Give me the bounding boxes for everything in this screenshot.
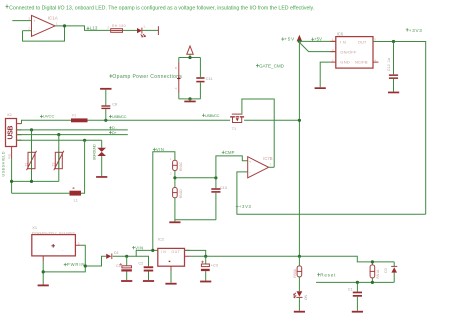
capacitor C2	[136, 256, 153, 280]
wire UVCC	[22, 120, 72, 123]
wire divider bottom to ground	[175, 198, 216, 220]
wire X1 pin loop	[43, 245, 85, 272]
node divider junction	[173, 176, 176, 179]
node Z1 junction	[30, 128, 33, 131]
svg-text:Reset: Reset	[320, 273, 336, 278]
ground C12	[388, 92, 399, 94]
resistor RN1D	[172, 188, 183, 199]
wire D1 to VIN step	[113, 250, 158, 256]
resistor RH	[107, 24, 125, 32]
svg-text:-: -	[40, 250, 41, 253]
svg-text:GND: GND	[340, 60, 350, 65]
net UVCC label	[40, 114, 54, 119]
wire divider middle	[175, 171, 216, 188]
wire D+ line	[17, 134, 128, 136]
opamp power connections text	[109, 74, 182, 80]
wire Reset line	[316, 281, 394, 283]
node OUT junction	[392, 40, 395, 43]
capacitor C8 with ground above	[100, 88, 117, 120]
ground IC6	[315, 87, 326, 89]
svg-text:UVCC: UVCC	[43, 114, 54, 119]
svg-text:ON/OFF: ON/OFF	[340, 50, 357, 55]
node Z2 junction	[57, 133, 60, 136]
wire GND line	[17, 139, 102, 141]
power jack X1	[32, 226, 81, 261]
wire 5V output line	[190, 256, 394, 262]
wire IC1A output	[55, 26, 111, 31]
node L13 label	[87, 26, 98, 31]
ground ON LED	[294, 311, 305, 313]
node shield junctions	[10, 180, 13, 183]
wire IC2 GND	[170, 271, 172, 283]
svg-text:+5V: +5V	[314, 37, 322, 42]
ground C1	[121, 280, 132, 282]
node X1 junction	[42, 270, 45, 273]
svg-text:USBSHIELD: USBSHIELD	[2, 151, 6, 176]
wire IC7B output	[269, 166, 275, 168]
comment text top	[6, 5, 315, 12]
svg-text:C11: C11	[206, 76, 214, 81]
svg-text:IN: IN	[340, 39, 346, 44]
voltage regulator IC6	[330, 31, 378, 68]
svg-text:CMP: CMP	[225, 150, 235, 155]
wire IC1A -input	[23, 30, 32, 32]
wire LED to ground	[298, 298, 300, 311]
capacitor C3 polarized	[201, 256, 218, 280]
wire CMP	[216, 156, 248, 178]
node +5V net label	[311, 37, 322, 42]
svg-text:Z2: Z2	[52, 162, 56, 166]
capacitor C11	[196, 76, 213, 82]
ground divider	[169, 220, 180, 223]
node VIN junction IC2	[151, 249, 154, 252]
ground C2	[143, 280, 154, 282]
svg-text:D3: D3	[384, 268, 388, 272]
svg-text:D+: D+	[112, 131, 117, 135]
node loop bottom junction	[188, 97, 191, 100]
svg-text:C2: C2	[138, 262, 143, 266]
net +3V3 label mid	[236, 204, 252, 209]
svg-text:OUT: OUT	[171, 250, 180, 254]
svg-text:C1: C1	[348, 287, 353, 291]
svg-text:USB: USB	[7, 126, 14, 140]
node +3V3 label top	[406, 28, 422, 33]
svg-text:L1: L1	[74, 198, 78, 202]
capacitor C1 reset	[348, 282, 362, 310]
node L1 junction	[83, 139, 86, 142]
wire +5V to IC6 IN	[299, 40, 335, 42]
wire T1 drain to +5V rail	[244, 119, 299, 121]
wire IC1A +input	[12, 20, 31, 22]
svg-text:+3V3: +3V3	[409, 28, 422, 33]
varistor Z1	[24, 130, 36, 182]
wire X1 ground drop	[42, 261, 44, 285]
svg-text:Opamp Power Connections: Opamp Power Connections	[112, 74, 182, 80]
diode D1	[106, 251, 119, 259]
node T1 drain junction	[298, 119, 301, 122]
svg-text:C13: C13	[220, 186, 227, 190]
node loop top junction	[188, 56, 191, 59]
op-amp IC7B	[248, 156, 273, 178]
wire IC6 OUT to +3V3	[373, 42, 426, 215]
wire power loop bottom	[179, 98, 201, 100]
USB shield pin P$1	[2, 147, 12, 177]
varistor Z2	[52, 135, 64, 182]
wire VIN branch	[153, 152, 175, 251]
wire shield to L1	[12, 192, 70, 194]
svg-text:T1: T1	[232, 127, 236, 131]
svg-text:F1: F1	[72, 113, 76, 117]
wire resistor to LED	[123, 29, 138, 31]
USB connector X2	[6, 113, 22, 147]
svg-text:IC2: IC2	[158, 237, 164, 241]
wire IC1A feedback	[23, 26, 65, 41]
svg-text:IC6: IC6	[337, 31, 344, 36]
svg-text:IC7B: IC7B	[263, 156, 273, 161]
svg-text:IC1A: IC1A	[48, 15, 58, 20]
node output junction	[63, 24, 66, 27]
wire USBVCC line	[88, 119, 231, 121]
ground IC2	[165, 283, 176, 285]
ground UGROUND	[96, 176, 107, 178]
wire LED to stub	[142, 29, 158, 31]
svg-text:+3V3: +3V3	[239, 204, 252, 209]
svg-text:P$1: P$1	[8, 153, 12, 159]
LED L	[137, 24, 146, 37]
net D+ label	[109, 131, 117, 135]
node C1 junction	[125, 255, 128, 258]
svg-text:IN: IN	[161, 250, 166, 254]
wire L1 to GND line	[81, 140, 85, 193]
svg-text:NC/FB: NC/FB	[355, 60, 368, 65]
svg-text:C8: C8	[112, 102, 117, 106]
ferrite UGROUND	[92, 140, 106, 176]
node reset C1 junction	[356, 281, 359, 284]
wire power loop top	[179, 57, 201, 59]
ground reset C1	[352, 311, 363, 313]
node CMP junction	[214, 176, 217, 179]
net CMP label	[222, 150, 235, 155]
LED ON	[294, 291, 308, 300]
node rail junction	[298, 255, 301, 258]
wire IC7B -input	[237, 172, 426, 214]
svg-text:L: L	[144, 24, 146, 28]
net Reset label	[317, 273, 336, 278]
node RN1A junctions	[371, 260, 374, 263]
svg-text:D-: D-	[112, 126, 117, 130]
voltage regulator IC2	[158, 237, 190, 271]
capacitor C1 polarized	[116, 256, 132, 280]
resistor RN1A	[370, 262, 380, 283]
net PWRIN label	[64, 262, 85, 267]
svg-text:OUT: OUT	[358, 39, 367, 44]
svg-text:VIN: VIN	[156, 147, 164, 152]
svg-text:C12 .1u: C12 .1u	[387, 58, 391, 71]
fuse F1	[71, 113, 88, 122]
svg-text:USBVCC: USBVCC	[112, 114, 127, 119]
op-amp power pins IC1P	[175, 58, 181, 99]
node PWRIN junction	[84, 264, 87, 267]
svg-text:Z1: Z1	[24, 162, 28, 166]
wire IC2 OUT step	[185, 250, 206, 256]
ground X1	[38, 285, 49, 287]
ground C3	[200, 281, 211, 283]
diode D3	[384, 262, 397, 283]
node C8 junction	[104, 119, 107, 122]
wire T1 gate loop	[242, 99, 274, 167]
svg-text:RN1D: RN1D	[179, 189, 183, 199]
ground below loop	[184, 99, 195, 102]
svg-text:RN5C: RN5C	[179, 161, 183, 171]
svg-text:X1: X1	[32, 226, 37, 230]
svg-text:GATE_CMD: GATE_CMD	[259, 64, 285, 69]
pin stub bar	[157, 26, 159, 35]
wire IC6 GND to ground	[320, 62, 330, 87]
inductor L1	[70, 188, 82, 203]
svg-text:L13: L13	[90, 26, 98, 31]
svg-text:ON: ON	[304, 294, 308, 300]
svg-text:D1: D1	[114, 251, 119, 255]
svg-text:VIN: VIN	[135, 245, 143, 250]
node +5V junction	[298, 40, 301, 43]
resistor RN5A	[293, 256, 302, 278]
svg-text:+5V: +5V	[284, 36, 294, 41]
svg-text:+C3: +C3	[211, 263, 218, 267]
wire power loop right upper	[199, 58, 201, 78]
net VIN label lower	[132, 245, 143, 250]
capacitor C13	[211, 178, 227, 220]
wire power loop right lower	[199, 83, 201, 99]
net USBVCC label left	[109, 114, 127, 119]
transistor T1	[230, 114, 244, 131]
svg-text:RN5A: RN5A	[293, 268, 297, 278]
supply symbol arrow	[187, 46, 193, 58]
net USBVCC label right	[202, 113, 220, 118]
wire PWRIN branch	[85, 256, 106, 266]
wire D- line	[17, 129, 128, 131]
wire +5V vertical rail	[298, 41, 300, 256]
svg-text:PWRIN: PWRIN	[67, 262, 85, 267]
svg-text:UGROUND: UGROUND	[92, 144, 96, 161]
svg-text:RH 150: RH 150	[112, 24, 126, 28]
wire +5V diagonal to ON/OFF	[299, 42, 335, 51]
svg-text:X2: X2	[7, 113, 12, 117]
wire RN5A to LED	[298, 277, 300, 291]
svg-text:RN1A: RN1A	[376, 269, 380, 279]
resistor RN5C	[170, 157, 183, 175]
svg-text:USBVCC: USBVCC	[205, 113, 220, 118]
op-amp IC1A	[28, 15, 58, 36]
capacitor C12	[387, 42, 398, 92]
net VIN label upper	[153, 147, 164, 152]
net GATE_CMD text	[256, 64, 285, 69]
net D- label	[109, 126, 117, 130]
svg-text:Connected to Digital I/O 13, o: Connected to Digital I/O 13, onboard LED…	[9, 6, 314, 12]
+5V supply arrow	[281, 35, 302, 42]
wire shield net upper	[12, 159, 59, 194]
node C3 junction	[204, 255, 207, 258]
